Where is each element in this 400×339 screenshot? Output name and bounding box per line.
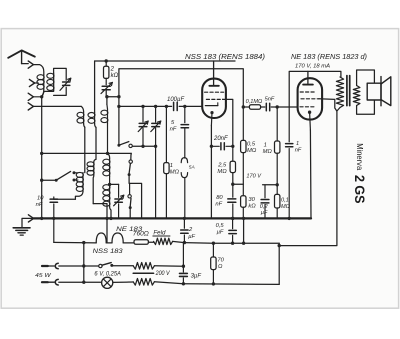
mains line 1 wire (59, 265, 99, 267)
wire main grid line right segment (179, 105, 202, 107)
resistor Feld field coil (154, 238, 173, 244)
wire node ANT down to chassis rail (41, 97, 43, 219)
junction 3uF bottom (182, 282, 185, 285)
svg-text:45 W: 45 W (35, 273, 51, 279)
tube U2 cathode dot and stem (308, 111, 311, 131)
wire node B riser to grid line (118, 97, 120, 146)
capacitor 2uF (181, 218, 188, 242)
wire heater bus to 760 (123, 242, 134, 244)
tube U2 envelope (298, 78, 323, 119)
wire node E to trimmer C3 (110, 183, 119, 185)
capacitor 80nF (228, 184, 236, 218)
junction ANT-rail (40, 217, 43, 220)
svg-text:170 V, 18 mA: 170 V, 18 mA (295, 64, 330, 70)
wire osc bus to U1 grid cap (119, 69, 214, 97)
junction wave switch feed (40, 179, 43, 182)
trimmer capacitor C3 (114, 184, 124, 218)
svg-text:2: 2 (110, 66, 115, 72)
tube U1 grid 1 dashed (205, 91, 224, 93)
antenna terminal chevron A3 (28, 93, 42, 100)
capacitor 0.2uF bias (261, 185, 269, 219)
resistor 0.5 MOhm (241, 107, 246, 153)
junction C2 top (154, 105, 157, 108)
output transformer secondary (353, 86, 360, 106)
junction mains 2 heater drop (82, 281, 85, 284)
wire L6 bottom to 10nF (54, 198, 76, 200)
capacitor 20nF (211, 143, 232, 150)
wire antenna input to primary coil top (33, 65, 43, 75)
mains line 2 wire (59, 281, 102, 283)
wire heater center tap (106, 218, 112, 243)
coil L4 (88, 112, 96, 127)
wire heater bus right (213, 242, 279, 244)
label NE 183 heater (116, 226, 143, 233)
label 2 GS (352, 175, 367, 204)
antenna tank circuit loop (42, 68, 66, 96)
capacitor 10nF (50, 197, 57, 242)
resistor 30 kOhm (241, 153, 246, 219)
junction 10nF rail (52, 217, 55, 220)
junction C1 top (141, 105, 144, 108)
speaker cone (381, 77, 391, 106)
wire HT rail corner down to coil L4 top (94, 61, 96, 112)
svg-text:MΩ: MΩ (170, 169, 180, 175)
wire heater bus left (54, 241, 96, 244)
capacitor 100uF series (174, 102, 178, 110)
resistor 0.1 MOhm bias (275, 185, 280, 219)
wire L3 to L6 link (84, 127, 86, 172)
junction L7 rail (109, 217, 112, 220)
switch S3 stub (129, 183, 131, 194)
antenna tank coil L2 (47, 73, 54, 91)
junction rail stub bottom (242, 242, 245, 245)
label 1 MOhm left (170, 163, 180, 175)
tube U1 filament dot and stem (210, 111, 213, 125)
svg-text:2 GS: 2 GS (352, 175, 367, 204)
junction bias node (276, 183, 279, 186)
label 5nF top (265, 97, 275, 103)
ground chevron at chassis rail (28, 215, 33, 222)
svg-text:0,2: 0,2 (260, 204, 269, 210)
switch S1 (117, 142, 132, 148)
svg-text:20nF: 20nF (213, 136, 228, 142)
label 45 W (35, 273, 51, 279)
svg-text:MΩ: MΩ (247, 148, 257, 154)
mains line 2 to return (154, 282, 279, 285)
label NSS 183 heater (93, 248, 124, 255)
svg-text:1: 1 (264, 142, 267, 148)
resistor 2.5 MOhm (230, 146, 235, 172)
label 170V 18mA (295, 64, 330, 70)
junction 20nF right (231, 145, 234, 148)
speaker wiring loop (357, 70, 375, 114)
heater NSS183 filament (96, 233, 106, 243)
svg-text:Feld: Feld (153, 229, 166, 236)
resistor 2 kOhm (104, 61, 109, 78)
label 2.5 MOhm (217, 162, 227, 175)
capacitor 1nF anode (286, 107, 293, 218)
junction osc node E (108, 183, 111, 186)
wire padder to node B (106, 90, 119, 97)
junction anode node (242, 105, 245, 108)
svg-text:nF: nF (215, 202, 222, 208)
label 20nF (213, 136, 228, 142)
switch S3 (128, 195, 132, 210)
wire main grid line left segment (119, 105, 172, 107)
junction coil node C (106, 152, 109, 155)
junction 0.5uF bottom (231, 242, 234, 245)
junction 2k feed (105, 59, 108, 62)
capacitor 0.5uF (229, 218, 236, 243)
trimmer capacitor osc padder (101, 78, 112, 93)
wire S3 to rail (129, 208, 131, 219)
svg-text:0,1: 0,1 (281, 197, 289, 203)
trimmer capacitor C1 (138, 106, 148, 146)
dropper tap bar (133, 272, 153, 274)
wire 760 to Feld (148, 241, 153, 243)
junction 1nF rail (288, 217, 291, 220)
heater NE183 filament (112, 233, 123, 243)
junction 3uF node (182, 265, 185, 268)
wire M1 node riser (182, 243, 184, 267)
wire bias node bar (263, 184, 278, 186)
junction 5nF top (183, 105, 186, 108)
label 1nF (295, 141, 302, 154)
junction mains 1 heater drop (82, 264, 85, 267)
antenna tap terminal chevron A2 (29, 79, 38, 86)
label NSS 183 (RENS 1884) (185, 52, 265, 61)
junction node B riser (117, 95, 120, 98)
wire ground lead (22, 218, 34, 227)
tube U1 grid 2 dashed (206, 98, 222, 100)
coil T2 left winding (87, 159, 96, 203)
junction Feld node (183, 241, 186, 244)
wire heater bus drop (278, 243, 280, 284)
svg-text:0,5: 0,5 (247, 142, 256, 148)
wire node B down to coil L5 top (106, 97, 108, 105)
wire U2 anode exit (319, 99, 337, 111)
junction trimmer C1 bus (141, 145, 144, 148)
wire dropper to 3uF node (154, 265, 183, 267)
svg-text:0,5: 0,5 (216, 223, 225, 229)
label 5nF left (170, 120, 177, 133)
label Minerva (355, 143, 365, 170)
switch S2 feed (130, 153, 132, 160)
switch S2 (128, 160, 133, 176)
wire U1 cathode to rail (210, 125, 212, 218)
svg-text:30: 30 (248, 197, 255, 203)
trimmer capacitor C2 (151, 106, 161, 218)
coil L6 tapped (75, 172, 83, 199)
junction transformer return (278, 244, 281, 247)
junction T2L rail (105, 217, 108, 220)
svg-text:1: 1 (170, 163, 173, 169)
fuse 5A (181, 128, 187, 219)
wire S5 to dropper (112, 265, 133, 267)
svg-text:nF: nF (295, 148, 302, 154)
tube U2 grid 1 dashed (300, 91, 315, 93)
label 0.1 MOhm bias (281, 197, 291, 209)
tube U1 top cap (209, 61, 218, 86)
capacitor 5nF left (181, 106, 188, 127)
resistor 70 Ohm (211, 243, 216, 284)
label 0.1 MOhm top (246, 99, 263, 105)
lamp 6V (102, 277, 113, 288)
label 170 V (246, 174, 262, 180)
coil L3 aerial RF (77, 106, 85, 127)
svg-text:200 V: 200 V (155, 271, 171, 277)
capacitor 3uF (180, 266, 188, 284)
label 80nF (215, 195, 223, 208)
svg-text:0,1MΩ: 0,1MΩ (246, 99, 263, 105)
wire heater drop (83, 243, 85, 283)
label 10nF (36, 196, 45, 209)
junction rail stub (242, 217, 245, 220)
svg-text:kΩ: kΩ (111, 73, 119, 79)
wire antenna line A4 to RF coil top (33, 105, 81, 107)
junction grid 2 leak (276, 105, 279, 108)
coil T2 right winding (103, 153, 110, 184)
svg-text:3µF: 3µF (191, 273, 202, 279)
wire rail to heater bus stub (243, 218, 245, 243)
chassis rail wire (34, 217, 311, 219)
svg-text:760Ω: 760Ω (133, 232, 149, 238)
wire Feld to junction (173, 241, 214, 243)
junction 1M top (165, 105, 168, 108)
label 2 kOhm (110, 66, 119, 79)
wire S1 to trimmer bus (132, 145, 155, 147)
label 1 MOhm 2 (263, 142, 273, 155)
wire S2 to rail (129, 175, 142, 219)
svg-text:70: 70 (217, 258, 224, 264)
svg-text:NSS 183 (RENS 1884): NSS 183 (RENS 1884) (185, 52, 265, 61)
junction node B (105, 95, 108, 98)
switch S5 mains (99, 263, 114, 268)
wire lamp to dropper 2 (113, 281, 133, 283)
resistor 1 MOhm grid leak 2 (275, 107, 280, 185)
label 200 V (155, 271, 171, 277)
svg-text:µF: µF (261, 210, 268, 216)
wire L1 bottom to node ANT (42, 89, 44, 97)
svg-text:170 V: 170 V (246, 174, 262, 180)
output transformer core (347, 76, 350, 106)
svg-text:kΩ: kΩ (248, 203, 256, 209)
wire band line (42, 152, 132, 154)
junction trimmer C2 bus (154, 145, 157, 148)
svg-text:µF: µF (188, 234, 195, 240)
label 3uF (191, 273, 202, 279)
wire transformer primary down (279, 108, 340, 246)
resistor dropper 200V lower (133, 279, 154, 286)
wire wave switch feed (42, 179, 56, 181)
coil L5 (101, 104, 108, 153)
svg-text:10: 10 (37, 196, 44, 202)
svg-text:6 V, 0,25A: 6 V, 0,25A (94, 271, 121, 277)
svg-text:µF: µF (217, 230, 224, 236)
antenna tank trimmer capacitor (60, 78, 71, 90)
antenna terminal chevron A4 (28, 103, 33, 110)
mains line 2 terminal (42, 279, 58, 285)
junction grid line left end (117, 105, 120, 108)
resistor dropper 200V upper (133, 263, 154, 270)
label Feld (153, 229, 170, 236)
svg-text:NE 183 (RENS 1823 d): NE 183 (RENS 1823 d) (291, 52, 367, 61)
svg-text:nF: nF (170, 127, 177, 133)
svg-text:100µF: 100µF (167, 97, 184, 103)
wire L4 to T2L link (95, 127, 97, 159)
wire T2 left bottom to rail (93, 204, 107, 219)
resistor 1 MOhm grid leak (164, 106, 169, 218)
label fuse 5A (189, 165, 195, 171)
node ANT junction (40, 95, 43, 98)
wire U1 anode exit (223, 99, 233, 146)
wire U1 anode branch (214, 69, 244, 107)
label 30 kOhm (248, 197, 256, 210)
svg-text:80: 80 (216, 195, 223, 201)
svg-text:5nF: 5nF (265, 97, 275, 103)
resistor 760 Ohm (134, 240, 148, 245)
antenna symbol (8, 50, 35, 63)
label 6V 0.25A (94, 271, 121, 277)
svg-text:1: 1 (296, 141, 299, 147)
svg-text:MΩ: MΩ (263, 149, 273, 155)
label 760 Ohm (133, 232, 149, 238)
tube U1 cathode (205, 103, 217, 106)
wire 2.5M to node 170V (233, 173, 244, 185)
label NE 183 (RENS 1823 d) (291, 52, 367, 61)
junction band line left (40, 152, 43, 155)
wire anode rail tube2 (289, 71, 341, 107)
label 0.5uF (216, 223, 225, 236)
junction 70 bottom (212, 282, 215, 285)
mains line 1 terminal (42, 263, 58, 269)
svg-text:NSS 183: NSS 183 (93, 248, 124, 255)
output transformer primary (336, 77, 343, 108)
svg-text:2,5: 2,5 (217, 162, 227, 168)
svg-text:Ω: Ω (218, 264, 223, 270)
junction 70 top (212, 242, 215, 245)
junction heater drop top (82, 241, 85, 244)
label 0.2uF (260, 204, 269, 216)
wire HT rail top (95, 60, 235, 62)
junction 2uF rail (183, 217, 186, 220)
label 70 Ohm (217, 258, 224, 271)
resistor 0.1 MOhm coupling (243, 105, 260, 110)
svg-text:Minerva: Minerva (355, 143, 365, 170)
junction 0.5uF rail (231, 217, 234, 220)
junction node D (231, 183, 234, 186)
antenna coil L1 primary (37, 75, 44, 90)
tube U2 grid entry dashed (300, 106, 316, 108)
label 0.5 MOhm (247, 142, 257, 155)
label 2uF (188, 227, 196, 240)
junction 20nF left (210, 145, 213, 148)
wire U2 cathode to rail end (309, 130, 312, 218)
tube U2 top cap (303, 71, 313, 84)
tube U2 grid 2 dashed (301, 98, 319, 100)
switch S4 wave (55, 171, 78, 181)
svg-text:MΩ: MΩ (217, 169, 227, 175)
coil L7 osc (103, 184, 111, 218)
ground symbol (13, 228, 30, 235)
svg-text:5A: 5A (189, 165, 195, 171)
svg-text:nF: nF (36, 202, 43, 208)
speaker driver (367, 83, 381, 100)
capacitor 5nF coupling (261, 103, 298, 111)
tube U1 envelope (202, 79, 226, 118)
antenna terminal chevron A1 (28, 61, 33, 68)
label 100uF (167, 97, 184, 103)
junction 80nF rail (231, 217, 234, 220)
